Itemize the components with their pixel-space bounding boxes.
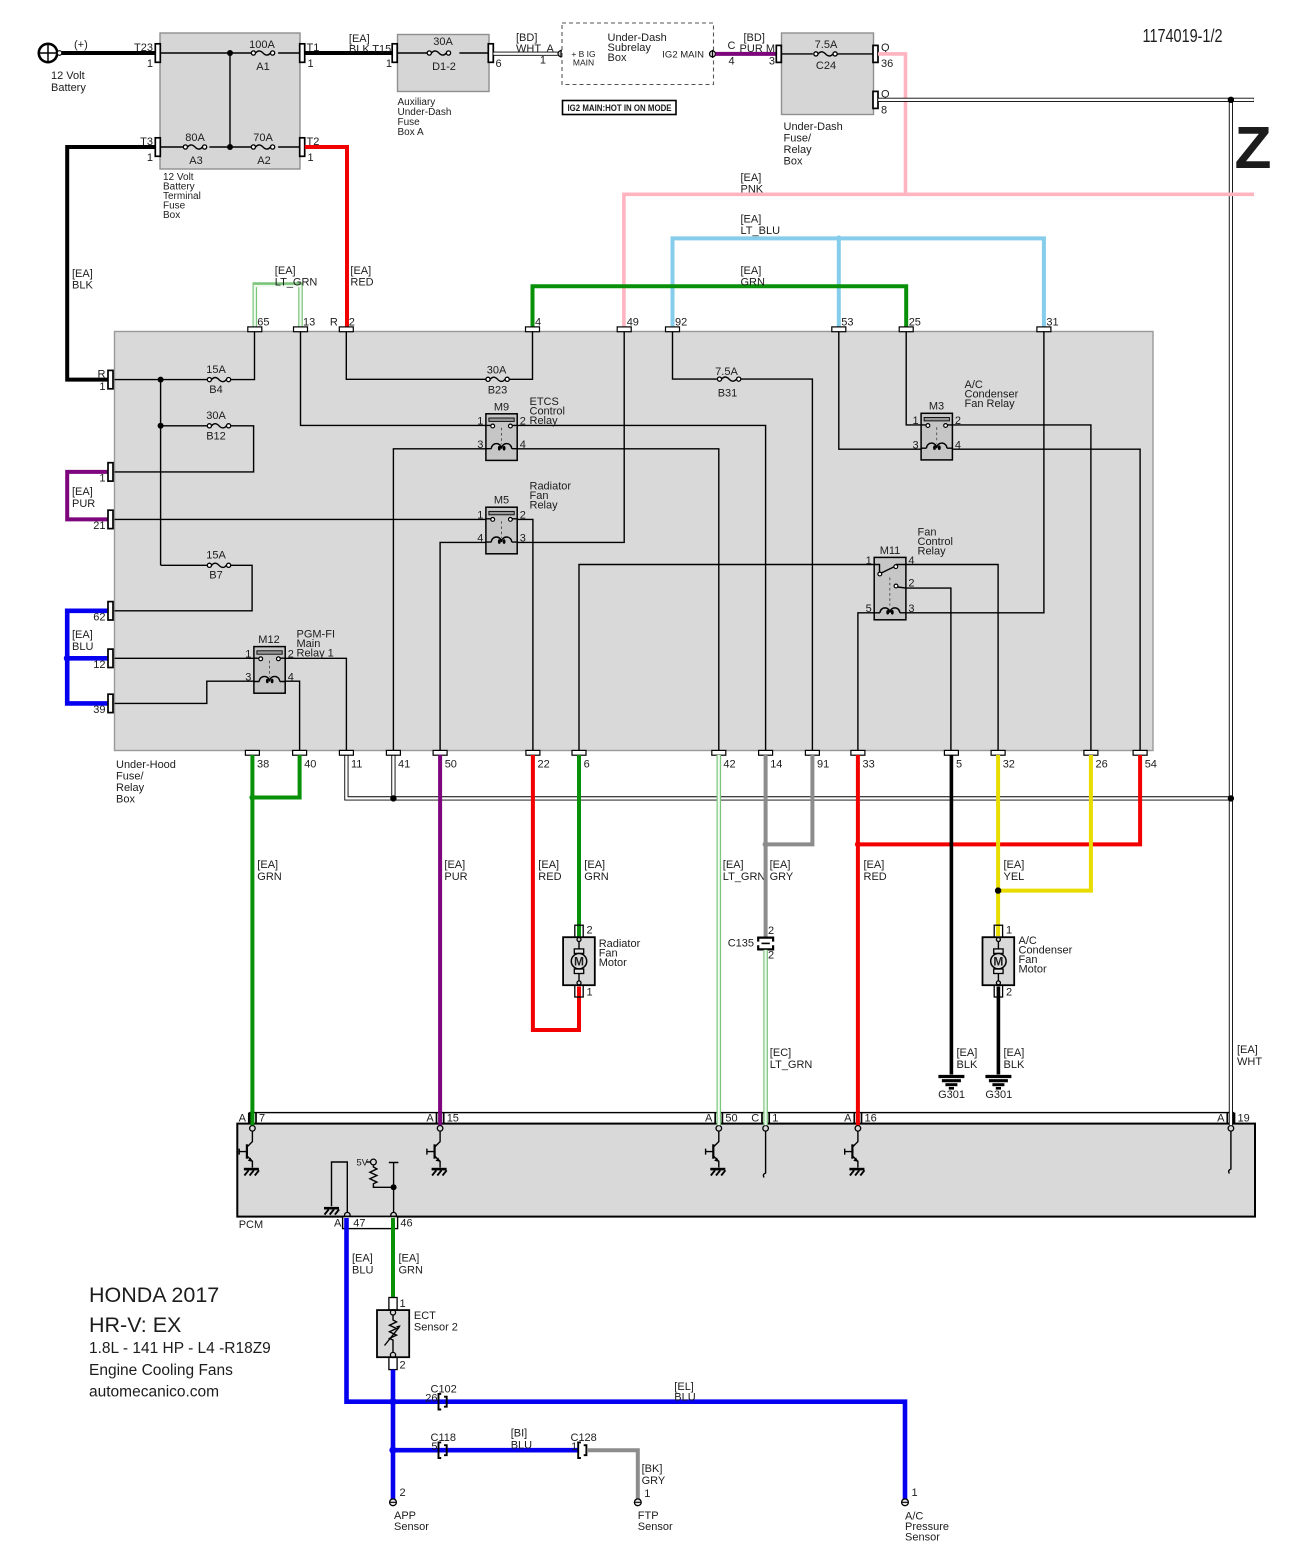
wire: [EA] RED pin 22 to radiator fan motor pin 1 (533, 755, 579, 1030)
pin C 1 (PCM) (751, 1113, 778, 1132)
wire: [EA] PUR pin 50 to PCM A15 (440, 755, 468, 1125)
svg-text:16: 16 (865, 1113, 877, 1125)
svg-text:1: 1 (477, 416, 483, 428)
svg-text:IG2 MAIN:HOT IN ON MODE: IG2 MAIN:HOT IN ON MODE (568, 103, 672, 113)
svg-text:G301: G301 (938, 1089, 965, 1101)
junction: 5V pull-up to A46 (391, 1184, 397, 1190)
pin T1 1 (300, 42, 320, 70)
svg-text:2: 2 (1006, 987, 1012, 999)
pin 22 (526, 750, 550, 770)
svg-text:A1: A1 (256, 61, 269, 73)
svg-text:12: 12 (93, 659, 105, 671)
svg-text:1.8L - 141 HP - L4 -R18Z9: 1.8L - 141 HP - L4 -R18Z9 (89, 1340, 271, 1357)
svg-text:[EA]: [EA] (257, 859, 278, 871)
wire: pin 49 to M5 pin 3 (517, 332, 624, 543)
svg-text:33: 33 (863, 759, 875, 771)
svg-text:1: 1 (571, 1441, 577, 1453)
svg-text:30A: 30A (433, 36, 453, 48)
relay M12: PGM-FI Main Relay 1 (245, 629, 335, 694)
svg-text:3: 3 (769, 56, 775, 68)
wire: white +B bus pins 11 41 to A19 riser (346, 755, 1231, 798)
wire: M9 pin 3 to pin 41 (393, 449, 486, 751)
svg-text:31: 31 (1046, 317, 1058, 329)
wire: white Q8 horizontal + vertical to PCM A19 (878, 100, 1254, 1125)
svg-text:[EA]: [EA] (72, 629, 93, 641)
junction: white riser at +B bus (1228, 795, 1234, 801)
svg-text:Relay 1: Relay 1 (297, 648, 334, 660)
svg-text:G301: G301 (985, 1089, 1012, 1101)
label: IG2 MAIN:HOT IN ON MODE (563, 101, 677, 115)
wire: [EA] BLK T1 to T15 (305, 33, 393, 70)
svg-text:42: 42 (723, 759, 735, 771)
svg-text:14: 14 (770, 759, 782, 771)
fuse A3 80A (183, 132, 206, 167)
pin A 47 (PCM bottom) (334, 1212, 350, 1229)
wire: M12 pin 2 to pin 11 (284, 658, 346, 750)
svg-text:1: 1 (147, 58, 153, 70)
svg-text:50: 50 (725, 1113, 737, 1125)
svg-text:1: 1 (386, 58, 392, 70)
svg-text:[EA]: [EA] (1004, 859, 1025, 871)
svg-text:A: A (239, 1113, 247, 1125)
pin 38 (245, 750, 269, 770)
svg-text:40: 40 (304, 759, 316, 771)
pin R 2 (330, 317, 355, 332)
svg-text:7: 7 (259, 1113, 265, 1125)
label: [EL] BLU (674, 1381, 695, 1404)
svg-text:Motor: Motor (599, 957, 627, 969)
pin 21 (left edge) (93, 510, 113, 532)
svg-text:4: 4 (477, 533, 483, 545)
svg-text:1: 1 (477, 510, 483, 522)
pin T15 1 (392, 44, 397, 63)
svg-text:ECT: ECT (414, 1310, 436, 1322)
svg-text:[EA]: [EA] (350, 265, 371, 277)
fuse B12 30A (206, 410, 230, 443)
svg-text:PNK: PNK (741, 184, 764, 196)
fuse box: 12 Volt Battery Terminal Fuse Box (160, 33, 300, 221)
svg-text:A: A (844, 1113, 852, 1125)
svg-text:53: 53 (841, 317, 853, 329)
pin 1 (left edge) (99, 463, 113, 485)
wire: PCM C1 internal stub (763, 1131, 765, 1177)
wire: pin 13 to M9 pin 1 (301, 332, 486, 426)
pin 40 (293, 750, 317, 770)
wire: [EA] BLU pin 62 to pins 12 39 (67, 611, 108, 704)
svg-text:[EA]: [EA] (275, 265, 296, 277)
pin 39 (left edge) (93, 694, 113, 716)
sensor: ECT Sensor 2 (377, 1298, 458, 1372)
svg-text:PUR: PUR (72, 498, 95, 510)
connector C118 5 (431, 1432, 456, 1458)
svg-text:1: 1 (308, 152, 314, 164)
svg-text:[BK]: [BK] (642, 1463, 663, 1475)
svg-text:PUR: PUR (444, 871, 467, 883)
svg-text:30A: 30A (487, 365, 507, 377)
fuse B4 15A (206, 364, 230, 396)
wire: [EA] YEL pin 26 branch (998, 755, 1091, 891)
svg-text:GRY: GRY (642, 1475, 666, 1487)
svg-text:4: 4 (288, 672, 294, 684)
pin A 15 (PCM) (426, 1113, 459, 1132)
junction: yellow wires (995, 887, 1001, 893)
svg-text:1: 1 (772, 1113, 778, 1125)
wire: internal bus T23 to A1 (160, 53, 300, 147)
svg-text:A: A (426, 1113, 434, 1125)
pin 65 (248, 317, 270, 332)
svg-text:1: 1 (540, 55, 546, 67)
svg-text:[EA]: [EA] (352, 1253, 373, 1265)
svg-text:[EA]: [EA] (957, 1047, 978, 1059)
svg-text:RED: RED (538, 871, 561, 883)
svg-text:80A: 80A (185, 132, 205, 144)
svg-text:26: 26 (425, 1393, 437, 1405)
transistor: PCM driver at A50 with ground (706, 1131, 726, 1175)
wire: M3 pin 2 to pin 26 (952, 425, 1091, 751)
node: APP Sensor pin 2 (390, 1487, 430, 1533)
svg-text:BLK: BLK (72, 280, 93, 292)
svg-text:[EA]: [EA] (1237, 1044, 1258, 1056)
wire: [EA] PNK vertical from C24 pin 36 (878, 54, 906, 194)
wire: [BI] BLU C118 line (393, 1428, 578, 1452)
pin 53 (832, 317, 854, 332)
fuse C24 7.5A (814, 39, 838, 72)
node: +B IG MAIN connector (558, 50, 564, 58)
pin A 46 (PCM bottom) (380, 1212, 396, 1229)
svg-text:A3: A3 (189, 155, 202, 167)
svg-text:B7: B7 (209, 570, 222, 582)
battery: 12 Volt Battery (39, 39, 88, 94)
svg-text:[EA]: [EA] (741, 265, 762, 277)
svg-text:Z: Z (1235, 115, 1272, 181)
pin Q 36 (873, 42, 893, 70)
svg-text:HR-V: EX: HR-V: EX (89, 1313, 181, 1337)
svg-text:B31: B31 (718, 388, 738, 400)
svg-text:Motor: Motor (1019, 964, 1047, 976)
svg-text:13: 13 (303, 317, 315, 329)
junction: LT_BLU at pin 53 (836, 235, 842, 241)
svg-text:Engine Cooling Fans: Engine Cooling Fans (89, 1362, 233, 1379)
wire: PCM A19 internal stub (1229, 1131, 1231, 1173)
svg-text:RED: RED (864, 871, 887, 883)
svg-text:GRY: GRY (770, 871, 794, 883)
svg-text:4: 4 (908, 555, 914, 567)
wire: pin 25 to M3 pin 1 (906, 332, 921, 425)
relay M5: Radiator Fan Relay (477, 481, 571, 554)
fuse A1 100A (249, 39, 275, 73)
motor: Radiator Fan Motor (563, 925, 641, 999)
wire: M11 pin 4 to pin 32 (906, 565, 998, 751)
pin A 50 (PCM) (705, 1113, 738, 1132)
wire: [EA] RED T2 to pin R2 (305, 147, 374, 327)
svg-text:BLK: BLK (1004, 1059, 1025, 1071)
svg-text:A: A (547, 43, 555, 55)
svg-text:100A: 100A (249, 39, 275, 51)
svg-text:2: 2 (908, 578, 914, 590)
svg-text:4: 4 (728, 56, 734, 68)
label: HONDA 2017 title block (89, 1283, 271, 1401)
junction: red wires (855, 841, 861, 847)
fuse B7 15A (206, 550, 230, 582)
fuse box: Under-Dash Fuse/Relay Box (782, 33, 874, 168)
svg-text:2: 2 (768, 925, 774, 937)
svg-text:21: 21 (93, 520, 105, 532)
svg-text:2: 2 (955, 415, 961, 427)
wire: [EA] BLK A/C motor pin 2 to G301 (998, 987, 1025, 1075)
svg-text:A: A (334, 1218, 342, 1230)
svg-text:M9: M9 (494, 402, 509, 414)
svg-text:5: 5 (866, 603, 872, 615)
svg-text:B23: B23 (488, 385, 508, 397)
svg-text:LT_BLU: LT_BLU (741, 225, 781, 237)
connector C102 26 (425, 1384, 457, 1410)
svg-text:[EA]: [EA] (864, 859, 885, 871)
connector frame: PCM bottom A47 A46 (343, 1217, 413, 1230)
svg-text:12 Volt: 12 Volt (51, 70, 85, 82)
svg-text:5: 5 (956, 759, 962, 771)
pin Q 8 (873, 89, 890, 117)
pin 14 (759, 750, 783, 770)
svg-text:C135: C135 (728, 938, 754, 950)
svg-text:1: 1 (644, 1488, 650, 1500)
junction: blue bus at C118 line (389, 1447, 396, 1454)
pin 32 (991, 750, 1015, 770)
svg-text:Sensor: Sensor (905, 1532, 940, 1544)
relay M9: ETCS Control Relay (477, 396, 565, 460)
svg-text:YEL: YEL (1004, 871, 1025, 883)
svg-text:3: 3 (245, 672, 251, 684)
svg-text:M11: M11 (880, 545, 901, 557)
svg-text:15A: 15A (206, 364, 226, 376)
svg-text:2: 2 (587, 925, 593, 937)
wire: [EA] YEL pin 32 to A/C condenser fan motor pin 1 (998, 755, 1024, 936)
wire: pin 92 through fuse B31 to pin 91 (673, 332, 813, 751)
wire: B7 branch to pin 62 (115, 565, 253, 611)
svg-text:[EA]: [EA] (584, 859, 605, 871)
svg-text:[EA]: [EA] (72, 268, 93, 280)
resistor: PCM 5V pull-up (356, 1158, 398, 1213)
svg-text:[EC]: [EC] (770, 1047, 791, 1059)
svg-text:BLU: BLU (352, 1265, 373, 1277)
junction: box1 bottom bus (227, 144, 233, 150)
wire: [EA] GRN pins 38 40 to PCM A7 (252, 755, 299, 1125)
svg-text:MAIN: MAIN (573, 58, 594, 68)
svg-text:3: 3 (477, 439, 483, 451)
svg-text:70A: 70A (253, 132, 273, 144)
svg-text:Sensor 2: Sensor 2 (414, 1322, 458, 1334)
wire: pin R2 through fuse B23 to pin 4 (346, 332, 532, 380)
pin T23 1 (134, 42, 160, 70)
svg-text:39: 39 (93, 704, 105, 716)
wire: [EA] GRY pin 91 branch (766, 755, 813, 844)
pin 42 (712, 750, 736, 770)
svg-text:5: 5 (431, 1441, 437, 1453)
svg-text:32: 32 (1003, 759, 1015, 771)
svg-text:Box: Box (784, 156, 803, 168)
wire: battery positive to T23 (62, 51, 156, 55)
box: PCM (237, 1113, 1255, 1231)
svg-text:A: A (1217, 1113, 1225, 1125)
wire: pin 53 to M3 pin 3 (839, 332, 921, 450)
fuse D1-2 30A (427, 36, 456, 73)
wire: colored stubs through PCM connector frame (252, 1111, 1231, 1125)
svg-text:1: 1 (866, 555, 872, 567)
svg-text:6: 6 (496, 58, 502, 70)
svg-text:30A: 30A (206, 410, 226, 422)
svg-text:[EA]: [EA] (770, 859, 791, 871)
svg-text:41: 41 (398, 759, 410, 771)
svg-text:4: 4 (955, 440, 961, 452)
svg-text:Box: Box (608, 52, 627, 64)
svg-text:Box: Box (116, 794, 135, 806)
junction: box1 top bus (227, 50, 233, 56)
svg-text:Box: Box (163, 210, 180, 221)
transistor: PCM driver at A16 with ground (845, 1131, 865, 1175)
svg-text:1: 1 (400, 1298, 406, 1310)
svg-text:3: 3 (520, 533, 526, 545)
wire: [EA] LT_GRN pin 65 to pin 13 (255, 265, 318, 327)
svg-text:LT_GRN: LT_GRN (275, 277, 318, 289)
svg-text:T23: T23 (134, 42, 153, 54)
pin 41 (386, 750, 410, 770)
wire: pin 12 to M12 pin 1 (115, 657, 254, 659)
svg-text:1: 1 (587, 987, 593, 999)
wire: M9 pin 4 to pin 42 (517, 449, 719, 751)
svg-text:B4: B4 (209, 384, 222, 396)
svg-text:Fuse/: Fuse/ (784, 133, 812, 145)
wire: M9 pin 2 to pin 14 (517, 425, 765, 750)
wire: [EA] BLK pin 5 to G301 (951, 755, 978, 1075)
wire: pin 39 to M12 pin 3 (115, 681, 254, 703)
motor: A/C Condenser Fan Motor (983, 925, 1073, 999)
wire: R1 bus to fuse B4 and pin 65 (115, 332, 255, 380)
svg-text:BLU: BLU (674, 1392, 695, 1404)
ground G301 (A/C motor) (985, 1077, 1012, 1102)
svg-text:62: 62 (93, 612, 105, 624)
svg-text:47: 47 (353, 1218, 365, 1230)
wire: [BD] PUR M IG2 MAIN to C24 (716, 32, 777, 68)
svg-text:R: R (330, 317, 338, 329)
svg-text:WHT: WHT (516, 43, 541, 55)
junction: bus at B12 (158, 423, 164, 429)
svg-text:2: 2 (400, 1487, 406, 1499)
svg-text:IG2 MAIN: IG2 MAIN (662, 50, 704, 61)
svg-text:PCM: PCM (239, 1219, 263, 1231)
pin T2 1 (300, 136, 320, 164)
svg-text:1: 1 (912, 1487, 918, 1499)
wire: pin 21 to M5 pin 1 (115, 518, 486, 520)
svg-text:7.5A: 7.5A (815, 39, 838, 51)
svg-text:50: 50 (445, 759, 457, 771)
wire: [BK] GRY C128 to FTP sensor (587, 1450, 666, 1499)
pin 31 (1037, 317, 1059, 332)
svg-text:19: 19 (1238, 1113, 1250, 1125)
svg-text:[BI]: [BI] (511, 1428, 528, 1440)
svg-text:1: 1 (245, 649, 251, 661)
pin 13 (294, 317, 316, 332)
wire: [EA] PNK horizontal to pin 49 and off-page (624, 172, 1254, 327)
fuse B23 30A (486, 365, 509, 397)
svg-text:Relay: Relay (918, 546, 947, 558)
svg-text:92: 92 (675, 317, 687, 329)
label: [EA] WHT (A19 riser) (1237, 1044, 1262, 1068)
svg-text:C: C (751, 1113, 759, 1125)
svg-text:25: 25 (909, 317, 921, 329)
svg-text:C: C (728, 40, 736, 52)
svg-text:Relay: Relay (116, 782, 145, 794)
pin 50 (433, 750, 457, 770)
svg-text:A2: A2 (257, 155, 270, 167)
wire: [EA] BLU PCM A47 to sensor bus (347, 1218, 906, 1499)
wire: M11 pin 2 to pin 5 (906, 588, 951, 750)
svg-text:1: 1 (99, 473, 105, 485)
svg-text:Battery: Battery (51, 82, 86, 94)
svg-text:BLU: BLU (511, 1440, 532, 1452)
svg-text:2: 2 (349, 317, 355, 329)
svg-text:65: 65 (257, 317, 269, 329)
svg-text:Sensor: Sensor (638, 1521, 673, 1533)
svg-text:15A: 15A (206, 550, 226, 562)
svg-text:Sensor: Sensor (394, 1521, 429, 1533)
svg-text:49: 49 (627, 317, 639, 329)
fuse box: Auxiliary Under-Dash Fuse Box A (398, 35, 490, 139)
pin 92 (666, 317, 688, 332)
junction: green at pin 38 riser (249, 795, 255, 801)
pin 33 (851, 750, 875, 770)
svg-text:B12: B12 (206, 431, 226, 443)
wire: [EA] BLK T3 to under-hood R1 (67, 147, 155, 380)
svg-text:4: 4 (520, 439, 526, 451)
svg-text:GRN: GRN (584, 871, 609, 883)
wire: PCM A47 internal ground loop (332, 1162, 348, 1213)
svg-text:[EA]: [EA] (444, 859, 465, 871)
wire: [EA] LT_GRN pin 42 to PCM A50 (719, 755, 766, 1125)
svg-text:[EA]: [EA] (1004, 1047, 1025, 1059)
svg-text:Relay: Relay (784, 144, 813, 156)
svg-text:PUR M: PUR M (740, 43, 775, 55)
pin A 7 (PCM) (239, 1113, 265, 1132)
junction: blue at pin 12 (64, 655, 71, 662)
pin T3 1 (140, 136, 160, 164)
relay M11: Fan Control Relay (866, 527, 953, 620)
svg-text:[EA]: [EA] (723, 859, 744, 871)
svg-text:R: R (98, 369, 106, 381)
wire: [EA] RED pin 33 to PCM A16 (858, 755, 887, 1125)
pin A 16 (PCM) (844, 1113, 877, 1132)
svg-text:1: 1 (308, 58, 314, 70)
pin 49 (617, 317, 639, 332)
ground G301 (pin 5) (938, 1077, 965, 1102)
svg-text:91: 91 (817, 759, 829, 771)
svg-text:2: 2 (520, 416, 526, 428)
wire: [EC] LT_GRN C135 to PCM C1 (766, 950, 813, 1125)
pin 6 (572, 750, 590, 770)
wire: [EA] RED pin 54 branch (858, 755, 1140, 844)
svg-text:GRN: GRN (399, 1265, 424, 1277)
svg-text:[EA]: [EA] (72, 486, 93, 498)
svg-text:GRN: GRN (257, 871, 282, 883)
svg-text:4: 4 (535, 317, 541, 329)
box: Under-Dash Subrelay Box (dashed) (562, 23, 714, 85)
svg-text:38: 38 (257, 759, 269, 771)
svg-text:T15: T15 (372, 44, 391, 56)
svg-text:36: 36 (881, 58, 893, 70)
svg-text:2: 2 (288, 649, 294, 661)
pin 26 (1084, 750, 1108, 770)
svg-text:5V: 5V (356, 1158, 368, 1169)
junction: blue bus at C102 line (389, 1398, 396, 1405)
connector C135 (728, 925, 774, 962)
